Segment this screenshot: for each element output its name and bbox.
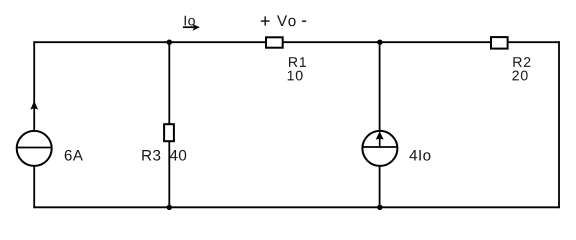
label 4Io — [409, 150, 430, 161]
current source I1 6A — [16, 101, 52, 166]
label - of Vo — [302, 20, 306, 22]
wire branch 4Io — [379, 42, 381, 207]
node junction bottom R3 — [167, 205, 172, 210]
wire left branch — [33, 41, 35, 208]
resistor R2 — [491, 37, 508, 49]
wire top net — [33, 41, 560, 43]
node junction top 4Io — [377, 40, 382, 45]
node junction bottom 4Io — [377, 205, 382, 210]
label R2 — [513, 57, 530, 67]
resistor R3 — [164, 124, 174, 141]
wire bottom net (reference) — [33, 206, 560, 208]
current arrow Io — [183, 16, 200, 31]
dependent current source 4Io — [362, 131, 398, 166]
label R1 — [289, 57, 306, 67]
node junction top R3 — [167, 40, 172, 45]
wire right branch — [558, 41, 560, 208]
label 40 — [170, 150, 186, 161]
label + of Vo — [261, 16, 270, 25]
label R3 — [142, 150, 160, 161]
resistor R1 — [266, 37, 283, 47]
label 20 — [512, 71, 527, 81]
label 6A — [65, 150, 83, 161]
label 10 — [288, 71, 303, 81]
label Vo — [277, 15, 296, 26]
wire middle branch R3 — [168, 42, 170, 207]
